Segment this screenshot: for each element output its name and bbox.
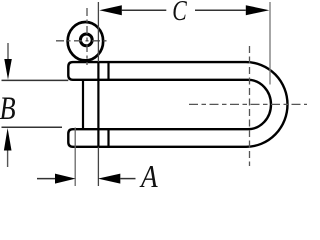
svg-text:A: A — [139, 160, 158, 188]
svg-text:C: C — [172, 0, 187, 27]
svg-text:B: B — [0, 90, 16, 126]
